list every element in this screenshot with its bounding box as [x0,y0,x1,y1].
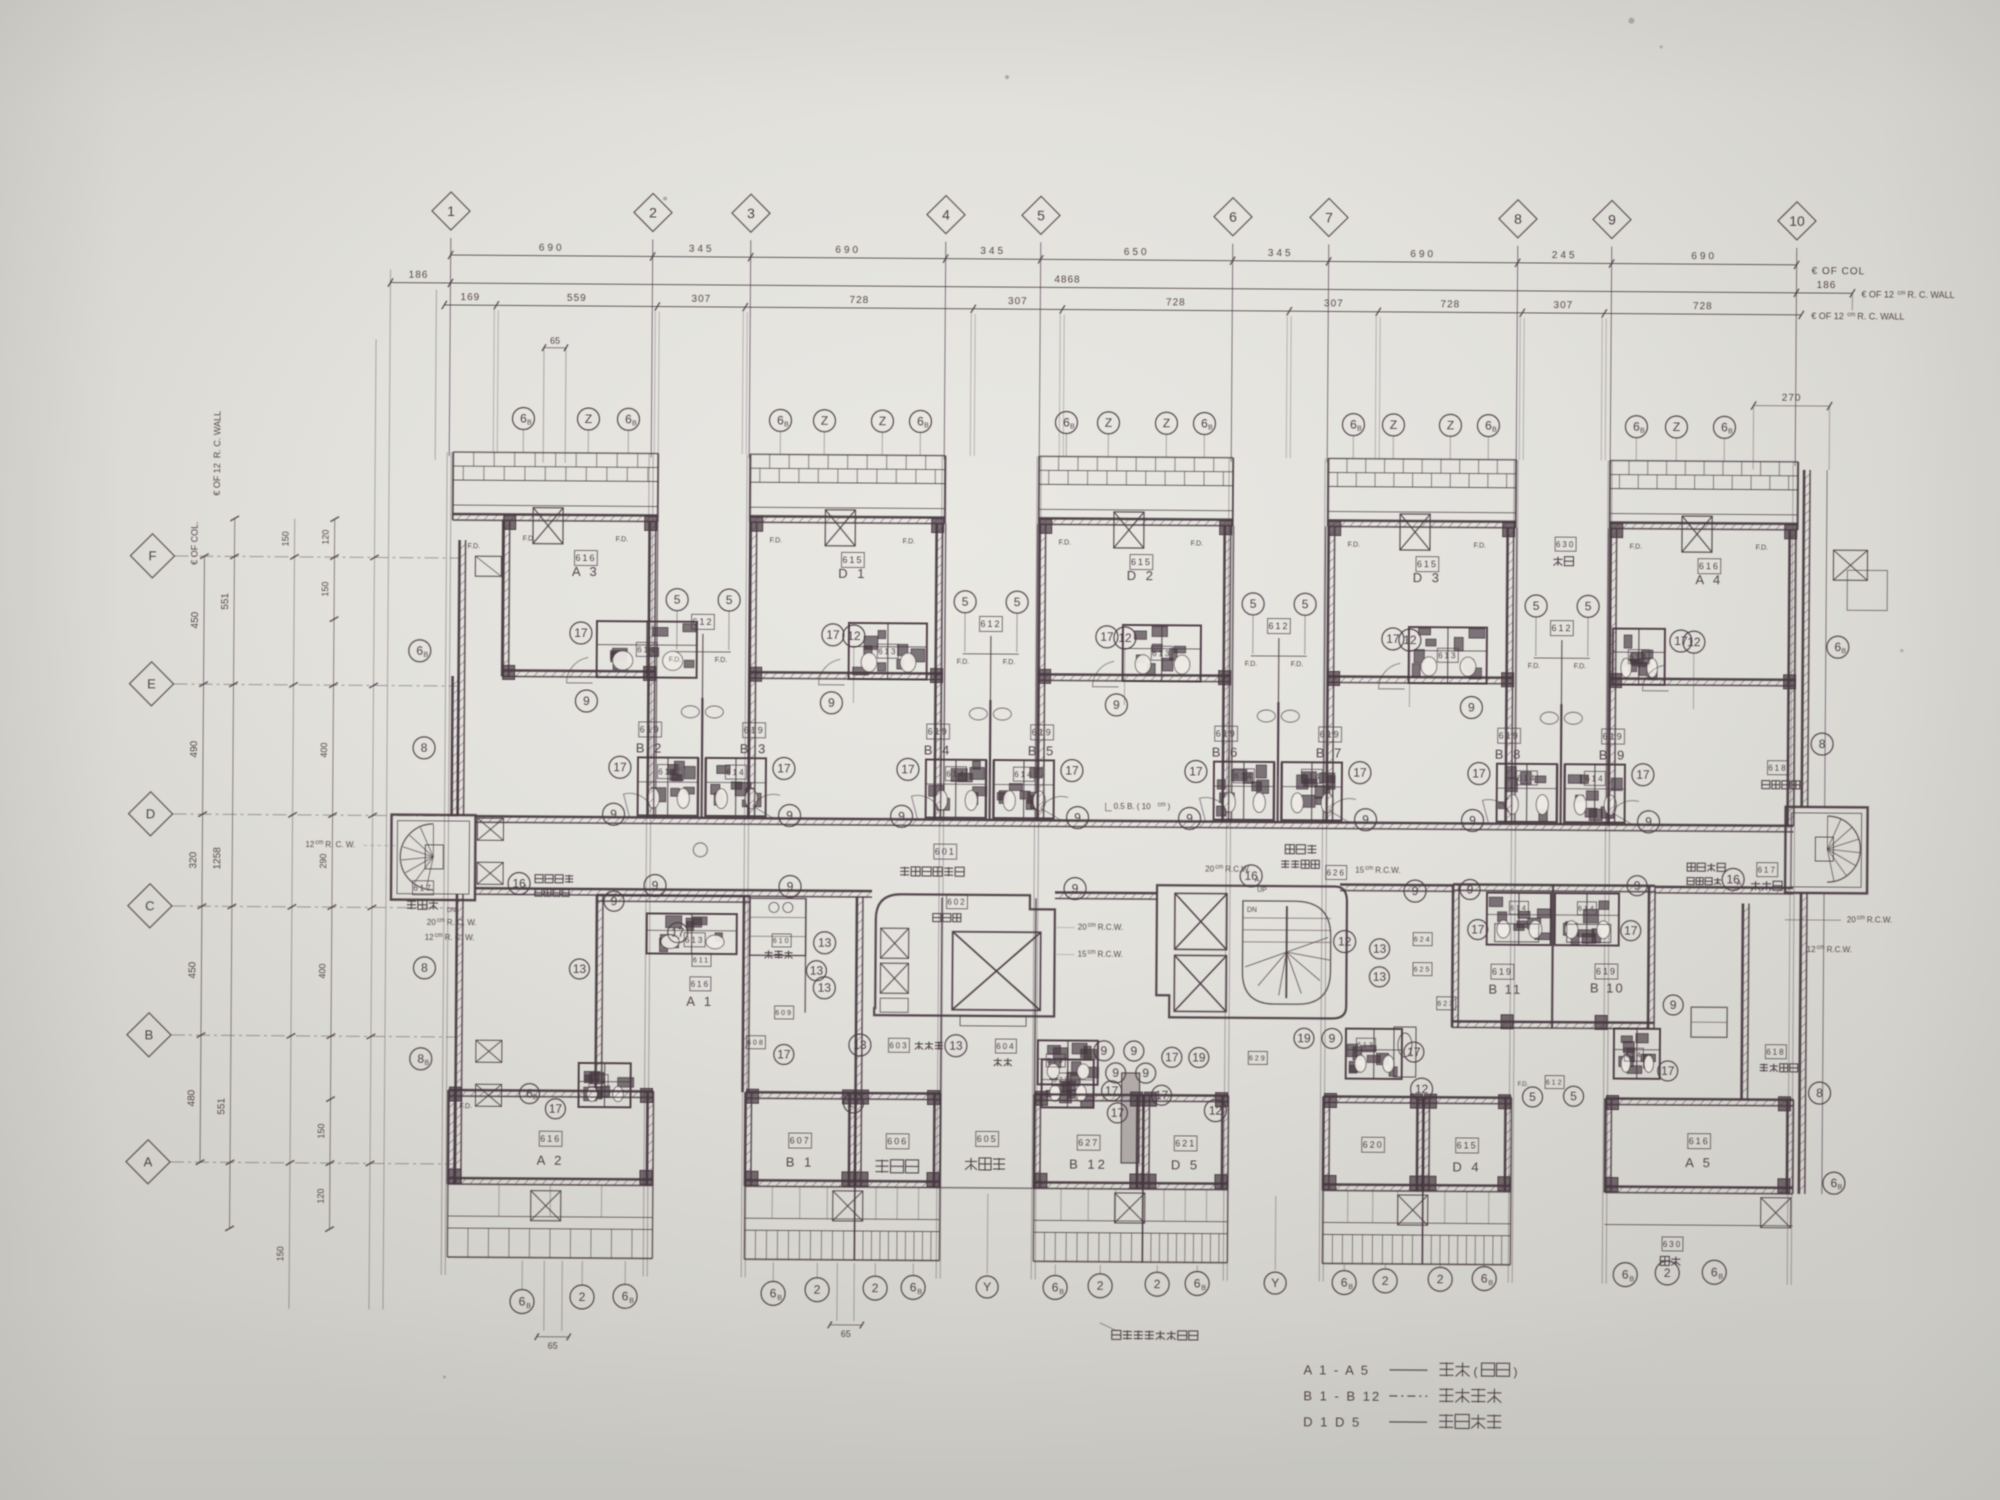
B 8/B 9 labels [1498,728,1521,743]
svg-text:400: 400 [317,964,327,979]
svg-text:619: 619 [1603,732,1624,742]
svg-text:6: 6 [1481,1272,1488,1286]
svg-text:cm: cm [437,918,445,924]
svg-text:B 6: B 6 [1212,745,1241,760]
svg-text:12: 12 [305,840,315,849]
svg-text:3: 3 [747,205,755,221]
svg-text:623: 623 [1437,1001,1455,1008]
svg-text:B 12: B 12 [1069,1157,1108,1172]
B 8/B 9 bathroom clusters [1497,764,1557,822]
svg-text:15: 15 [1078,950,1088,959]
unit pair B 6/B 7 party wall [1276,702,1279,822]
B 2/B 3 circled 17 [609,756,631,778]
svg-text:2: 2 [1437,1272,1444,1286]
unit A 3 columns [504,515,516,529]
svg-text:17: 17 [1105,1084,1119,1098]
B 4/B 5 window marks [969,708,987,720]
svg-text:619: 619 [1596,967,1617,977]
dimension row 3 (bay subdivisions) [444,305,1801,315]
unit A 3 bottom wall [503,670,656,671]
svg-text:17: 17 [671,926,685,940]
B11/B10 tubs [1495,924,1539,942]
scattered circled 17 lower mid [843,1093,863,1113]
svg-text:17: 17 [1065,764,1079,778]
balcony slab lines [1610,461,1798,462]
svg-text:B: B [1488,1280,1493,1287]
svg-text:345: 345 [689,244,715,255]
svg-text:(: ( [1473,1365,1477,1379]
east stair label 617 [1757,863,1778,877]
svg-text:120: 120 [316,1189,326,1204]
corridor top wall [476,816,1794,826]
left dimension chain x=377 [369,339,376,1309]
bottom unit 医 walls [854,1093,857,1187]
svg-text:F.D.: F.D. [459,1103,472,1110]
unit D 2 circled 17 [1096,626,1118,648]
svg-text:12: 12 [1209,1104,1223,1118]
svg-text:603: 603 [889,1041,908,1050]
svg-text:613: 613 [1357,1042,1375,1049]
unit D 3 circled 17 [1382,628,1404,650]
svg-text:F.D.: F.D. [523,536,536,543]
svg-text:9: 9 [787,880,794,894]
svg-text:F.D.: F.D. [1003,659,1016,666]
svg-text:F.D.: F.D. [1059,539,1072,546]
A1 labels [690,977,711,991]
svg-text:B 7: B 7 [1316,745,1345,760]
bottom circled markers module3 [1043,1275,1067,1299]
svg-text:621: 621 [1175,1139,1196,1149]
svg-text:17: 17 [826,628,840,642]
svg-text:65: 65 [841,1329,851,1339]
svg-text:F.D.: F.D. [1291,661,1304,668]
svg-text:9: 9 [1634,879,1641,893]
svg-text:cm: cm [1857,915,1865,921]
west service boxes lower [476,1040,502,1062]
svg-text:9: 9 [1329,1032,1336,1046]
svg-text:A 3: A 3 [572,564,600,579]
svg-text:9: 9 [898,809,905,823]
svg-text:F: F [148,548,156,563]
svg-text:A: A [1255,877,1260,884]
svg-text:1258: 1258 [212,847,223,870]
svg-text:307: 307 [691,294,711,305]
svg-text:cm: cm [315,840,323,846]
bottom unit A 2 walls [447,1090,450,1184]
bottom unit A 2 labels [539,1131,562,1146]
svg-text:Y: Y [983,1280,991,1294]
svg-text:614: 614 [1302,772,1321,781]
unit D 2 bathroom cluster [1123,625,1201,682]
svg-text:cm: cm [1158,802,1166,808]
svg-text:450: 450 [190,611,201,628]
B 4/B 5 labels [927,724,950,739]
svg-text:20: 20 [1205,865,1215,874]
svg-text:R. C. WALL: R. C. WALL [1907,290,1954,300]
A2 bathroom [578,1063,630,1107]
B 6/B 7 labels [1215,726,1238,741]
svg-text:cm: cm [1365,866,1373,872]
svg-text:A 1 - A 5: A 1 - A 5 [1303,1362,1370,1377]
svg-text:6: 6 [1229,209,1237,225]
svg-text:617: 617 [413,884,432,893]
svg-text:20: 20 [1078,923,1088,932]
bottom unit D 4 balcony [1422,1263,1510,1266]
unit D 2 side walls [1039,524,1040,680]
svg-text:307: 307 [1008,296,1028,307]
svg-text:17: 17 [1636,768,1650,782]
east stair 16A marker [1722,868,1744,890]
svg-text:2: 2 [579,1290,586,1304]
east circled markers 6B/8 [1827,636,1849,658]
grid row marker E [129,662,173,706]
B11/B10 17 circles [1468,919,1488,939]
svg-text:150: 150 [281,531,291,546]
svg-text:€ OF 12: € OF 12 [1811,311,1844,321]
svg-text:614: 614 [1014,770,1033,779]
svg-text:Z: Z [1447,419,1454,433]
bottom unit D 5 balcony [1142,1261,1227,1264]
svg-text:624: 624 [1414,937,1432,944]
svg-text:627: 627 [1078,1138,1099,1148]
605 room (gap2) [939,1094,942,1188]
svg-text:7: 7 [1325,209,1333,225]
svg-text:F.D.: F.D. [770,537,783,544]
corridor circled 9 markers [575,690,597,712]
svg-text:6: 6 [1622,1268,1629,1282]
unit D 3 labels [1416,557,1439,572]
svg-text:9: 9 [1467,883,1474,897]
svg-text:Z: Z [1390,418,1397,432]
svg-text:8: 8 [417,1052,424,1066]
small bath next to west core [1041,1059,1093,1107]
svg-text:613: 613 [878,647,897,656]
dimension row 2 (overall) [390,283,1852,294]
svg-text:616: 616 [575,553,596,563]
svg-text:€ OF COL.: € OF COL. [189,521,199,565]
B11/B10 columns [1501,1015,1513,1029]
svg-text:17: 17 [777,762,791,776]
svg-text:12: 12 [847,629,861,643]
corridor bottom wall centre [1055,891,1157,894]
unit A 3 circled 17 [570,622,592,644]
svg-text:A 2: A 2 [537,1153,565,1168]
svg-text:2: 2 [1664,1266,1671,1280]
unit D 2 columns [1040,519,1052,533]
svg-text:B: B [1208,425,1213,432]
svg-text:17: 17 [1155,1088,1169,1102]
svg-text:D 1 D 5: D 1 D 5 [1303,1414,1361,1429]
dim 65 bottom module1 [537,1336,569,1338]
svg-text:2: 2 [1097,1279,1104,1293]
grid marker 8 [1499,200,1537,238]
bottom unit 620 labels [1362,1137,1385,1152]
svg-text:186: 186 [1817,280,1837,291]
svg-text:612: 612 [980,619,1001,629]
bottom unit B 12 balcony [1033,1260,1142,1263]
B11/B10 outer walls [1452,884,1453,1027]
svg-text:B: B [1357,426,1362,433]
grid row marker C [128,884,172,928]
svg-text:17: 17 [1407,1045,1421,1059]
svg-text:615: 615 [842,555,863,565]
svg-text:400: 400 [319,743,329,758]
unit D 3 side walls [1328,526,1329,682]
vent shaft with X [825,510,855,546]
svg-text:605: 605 [977,1134,998,1144]
svg-text:618: 618 [1766,1047,1785,1056]
east core labels [1240,865,1262,887]
module1 west strip wall [458,540,460,816]
mid-left room walls (module2 lower) [856,897,857,1093]
svg-text:8: 8 [1514,211,1522,227]
unit D 3 columns [1329,521,1341,535]
svg-text:619: 619 [1047,1058,1065,1065]
unit D 1 door arc [819,659,845,685]
svg-text:B 1 - B 12: B 1 - B 12 [1303,1388,1381,1404]
svg-text:2: 2 [872,1281,879,1295]
svg-text:490: 490 [189,740,200,757]
svg-text:17: 17 [847,1096,861,1110]
unit D 1 labels [841,552,864,567]
unit A 3 bathroom cluster [597,621,697,678]
svg-text:R. C. W.: R. C. W. [445,933,475,942]
svg-text:15: 15 [1355,866,1365,875]
svg-text:cm: cm [1847,312,1855,318]
svg-text:4868: 4868 [1054,274,1080,285]
svg-text:B 5: B 5 [1028,743,1057,758]
svg-text:R. C. WALL: R. C. WALL [1857,311,1904,321]
B11/B10 9 circles [1460,879,1480,899]
svg-text:614: 614 [1510,905,1528,912]
B 2/B 3 labels [639,722,662,737]
svg-text:F.D.: F.D. [957,659,970,666]
svg-text:): ) [1168,802,1171,811]
svg-text:8: 8 [1819,737,1826,751]
grid marker 1 [432,192,470,230]
svg-text:F.D.: F.D. [468,543,481,550]
svg-text:D 5: D 5 [1171,1157,1200,1172]
unit D 3 bottom wall [1328,676,1514,677]
grid marker 2 [634,193,672,231]
svg-text:9: 9 [1186,812,1193,826]
lower lightwell 612 (B11/B10 to D4) [1522,1087,1542,1107]
bottom unit B 1 balcony [744,1258,854,1261]
svg-text:2: 2 [649,204,657,220]
svg-text:5: 5 [726,593,733,607]
svg-text:B: B [1201,1285,1206,1292]
svg-text:2: 2 [1382,1274,1389,1288]
svg-text:9: 9 [1412,884,1419,898]
grid row marker F [130,534,174,578]
svg-text:9: 9 [828,696,835,710]
bottom unit B 1 walls [744,1092,747,1186]
svg-text:€ OF 12 R. C. WALL: € OF 12 R. C. WALL [212,411,223,496]
svg-text:618: 618 [1768,763,1787,772]
bottom note [1112,1330,1198,1340]
svg-text:F.D.: F.D. [1630,544,1643,551]
svg-text:12: 12 [1687,635,1701,649]
vent shaft with X [533,508,563,544]
svg-text:9: 9 [583,694,590,708]
grid marker 4 [927,195,965,233]
left dimension chain x=207 [200,556,204,1162]
elevator shaft with X (big) [952,932,1041,1011]
svg-text:13: 13 [810,964,824,978]
svg-text:B: B [1492,427,1497,434]
core 602 label [946,895,967,909]
svg-text:9: 9 [1645,815,1652,829]
svg-text:B: B [526,1303,531,1310]
bottom unit 医 labels [886,1134,909,1149]
vent shaft with X [1114,512,1144,548]
bottom unit D 5 labels [1174,1136,1197,1151]
dimension row 1 (module widths) [451,255,1797,265]
unit A 4 circled 17 [1670,630,1692,652]
svg-text:609: 609 [775,1010,793,1017]
svg-text:619: 619 [1032,727,1053,737]
svg-text:D 3: D 3 [1413,570,1442,585]
svg-text:5: 5 [674,593,681,607]
svg-text:615: 615 [1131,557,1152,567]
svg-text:13: 13 [1373,942,1387,956]
svg-text:616: 616 [1699,561,1720,571]
svg-text:617: 617 [1757,865,1776,874]
svg-text:B 9: B 9 [1599,747,1628,762]
svg-text:17: 17 [549,1102,563,1116]
svg-text:320: 320 [188,851,199,868]
svg-text:12: 12 [1118,631,1132,645]
svg-text:345: 345 [1268,248,1294,259]
core 601 label [934,844,957,859]
svg-text:614: 614 [1625,1052,1643,1059]
svg-text:728: 728 [1693,301,1713,312]
B 6/B 7 circled 9 [1178,807,1200,829]
svg-text:9: 9 [1130,1044,1137,1058]
svg-text:17: 17 [1165,1050,1179,1064]
vent shaft with X [1682,516,1712,552]
svg-text:F.D.: F.D. [1245,661,1258,668]
svg-text:616: 616 [691,980,710,989]
lightwell at x=706 [656,522,658,818]
east-centre core outline [1156,885,1347,1018]
svg-text:F.D.: F.D. [1191,540,1204,547]
svg-text:614: 614 [658,767,677,776]
unit D 2 door arc [1093,661,1119,687]
svg-text:480: 480 [186,1089,197,1106]
svg-text:A: A [1737,880,1742,887]
svg-text:5: 5 [1570,1089,1577,1103]
tub room left of B11 [1394,1027,1416,1077]
svg-text:728: 728 [1166,297,1186,308]
svg-text:cm: cm [435,933,443,939]
svg-text:345: 345 [980,246,1006,257]
svg-text:13: 13 [818,981,832,995]
B 8/B 9 circled 9 [1461,809,1483,831]
svg-text:13: 13 [818,936,832,950]
bottom circled markers module4 [1332,1270,1356,1294]
svg-text:€ OF COL: € OF COL [1812,266,1866,277]
svg-text:5: 5 [1302,597,1309,611]
svg-text:12: 12 [1415,1082,1429,1096]
svg-text:9: 9 [1142,1066,1149,1080]
unit A 3 labels [575,550,598,565]
svg-text:616: 616 [540,1134,561,1144]
svg-text:65: 65 [550,336,560,346]
lightwell at x=994 [944,524,946,820]
svg-text:169: 169 [460,292,480,303]
svg-text:R.C.W.: R.C.W. [1827,945,1852,954]
svg-text:F.D.: F.D. [616,536,629,543]
balcony railing slats [1346,459,1348,473]
svg-text:8: 8 [421,741,428,755]
svg-text:606: 606 [887,1136,908,1146]
svg-text:17: 17 [1100,630,1114,644]
svg-text:10: 10 [1789,213,1805,229]
bottom circled markers module2 [761,1281,785,1305]
unit A 4 side walls [1610,529,1611,685]
svg-text:B 8: B 8 [1495,747,1524,762]
svg-text:5: 5 [1533,599,1540,613]
unit A 4 columns [1611,524,1623,538]
svg-text:): ) [1513,1365,1517,1379]
svg-text:4: 4 [942,207,950,223]
svg-text:728: 728 [849,295,869,306]
dim 65 bottom module2 [830,1324,862,1326]
svg-text:Z: Z [1673,420,1680,434]
svg-text:Z: Z [1163,416,1170,430]
corridor bottom wall east [1340,883,1453,886]
svg-text:8: 8 [1816,1086,1823,1100]
B12 upper bath [1038,1040,1098,1084]
svg-text:12: 12 [1807,945,1817,954]
unit D 1 side walls [750,522,751,678]
svg-text:5: 5 [1037,207,1045,223]
B11/B10 party wall [1552,885,1553,1028]
B 8/B 9 door arcs [1482,800,1509,824]
svg-text:8: 8 [421,961,428,975]
circled 17/19 pair east core [1162,1047,1182,1067]
east core elevator shafts with X [1175,893,1227,949]
A1 bathroom 613 [647,913,737,954]
svg-text:9: 9 [611,894,618,908]
right mid service boxes x=1700 [1691,1007,1727,1037]
svg-text:1: 1 [447,203,455,219]
svg-text:12: 12 [1403,633,1417,647]
west stair label 617 [413,881,434,895]
svg-text:602: 602 [947,897,966,906]
unit D 3 door arc [1379,663,1405,689]
svg-text:A: A [523,885,528,892]
svg-text:D 2: D 2 [1127,568,1156,583]
svg-text:616: 616 [1689,1136,1710,1146]
svg-text:A 4: A 4 [1695,572,1723,587]
svg-text:612: 612 [1268,621,1289,631]
svg-text:B 4: B 4 [924,742,953,757]
svg-text:630: 630 [1556,540,1575,549]
svg-text:€ OF 12: € OF 12 [1861,289,1894,299]
circled 13 markers west core [814,932,836,954]
vent shaft with X [1400,514,1430,550]
svg-text:17: 17 [1386,632,1400,646]
svg-text:B: B [629,1298,634,1305]
balcony railing slats [473,452,475,466]
B 6/B 7 circled 17 [1185,760,1207,782]
svg-text:690: 690 [835,245,861,256]
svg-text:120: 120 [321,530,331,545]
svg-text:614: 614 [637,645,656,654]
balcony slab lines [1039,456,1233,457]
